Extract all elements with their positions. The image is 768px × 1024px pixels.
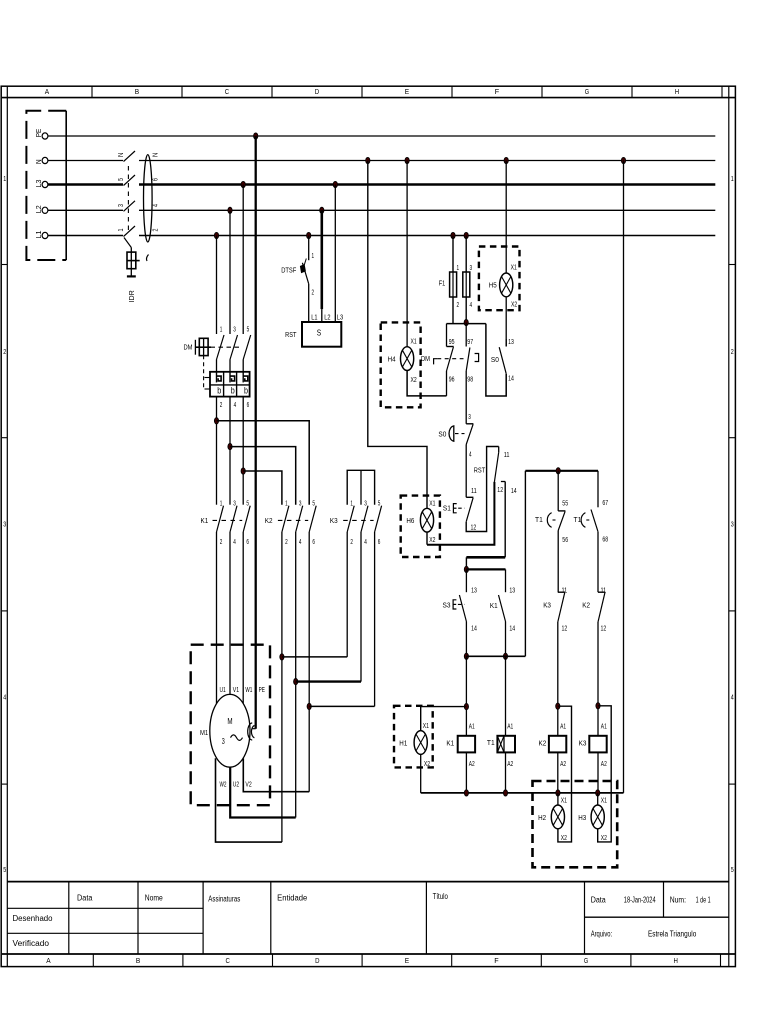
wire W2 link	[216, 758, 282, 842]
svg-text:S0: S0	[438, 429, 446, 438]
wire phase B down to K1	[229, 397, 231, 505]
wire DM 96 down	[446, 371, 448, 396]
svg-text:3: 3	[731, 522, 734, 529]
junction N to H4	[405, 157, 409, 163]
svg-text:X2: X2	[561, 835, 567, 842]
svg-text:b: b	[231, 386, 235, 396]
svg-text:1: 1	[350, 500, 353, 507]
svg-text:A2: A2	[469, 761, 475, 768]
wire 98 to S0	[465, 371, 467, 424]
wire S3 14 down	[465, 622, 467, 657]
wire PE bus	[48, 135, 715, 137]
svg-text:L1: L1	[34, 231, 43, 239]
wire H1 X1 to K1 A1	[421, 707, 467, 731]
svg-text:1: 1	[220, 327, 223, 334]
svg-text:5: 5	[378, 500, 381, 507]
wire L1 to F1b	[465, 236, 467, 273]
svg-text:4: 4	[469, 451, 472, 458]
svg-text:T1: T1	[487, 738, 495, 747]
svg-text:F: F	[494, 956, 499, 965]
wire K2-K3 link 6	[309, 705, 374, 707]
svg-text:5: 5	[118, 178, 125, 181]
svg-text:b: b	[217, 386, 221, 396]
wire N to H4 X1	[406, 161, 408, 347]
svg-text:18-Jan-2024: 18-Jan-2024	[624, 895, 656, 904]
svg-text:1: 1	[285, 500, 288, 507]
junction K3 A2 rail	[596, 790, 600, 796]
pushbutton S0	[438, 424, 473, 445]
svg-text:1: 1	[457, 265, 460, 272]
svg-text:N: N	[153, 153, 160, 157]
coil K1	[446, 736, 475, 753]
svg-text:X2: X2	[511, 301, 517, 308]
svg-text:H6: H6	[406, 516, 414, 525]
breaker DM	[184, 335, 251, 389]
svg-text:3: 3	[470, 265, 473, 272]
svg-text:12: 12	[562, 625, 568, 632]
wire feed to 97	[465, 323, 467, 347]
svg-text:K2: K2	[582, 600, 590, 609]
junction N column	[621, 157, 625, 163]
wire to K3 coil	[597, 622, 599, 736]
svg-text:A1: A1	[560, 724, 566, 731]
svg-text:4: 4	[234, 402, 237, 409]
svg-text:U1: U1	[220, 687, 226, 694]
svg-text:PE: PE	[259, 687, 266, 694]
motor M1	[200, 694, 250, 767]
contactor K3	[330, 506, 382, 532]
svg-text:A: A	[45, 87, 49, 96]
wire N to H5 X1	[505, 161, 507, 274]
contact DM 95-96	[421, 347, 464, 372]
wire T1 A2 down	[505, 752, 507, 793]
svg-text:b: b	[244, 386, 248, 396]
wire L3 to S	[334, 185, 336, 323]
wire to T1 coil	[505, 656, 507, 736]
svg-text:6: 6	[153, 178, 160, 181]
svg-text:Arquivo:: Arquivo:	[591, 930, 613, 939]
wire L1 to DTSF	[308, 236, 310, 261]
svg-text:Assinaturas: Assinaturas	[208, 894, 240, 903]
svg-text:2: 2	[731, 349, 734, 356]
svg-text:A1: A1	[469, 724, 475, 731]
svg-text:A2: A2	[560, 761, 566, 768]
svg-text:3: 3	[118, 204, 125, 207]
terminal PE	[34, 129, 48, 139]
wire K2 pole3 col	[295, 532, 297, 818]
svg-text:K2: K2	[265, 516, 273, 525]
wire H2 X1 stub	[557, 793, 559, 805]
wire H5 X2 to S0 13	[505, 297, 507, 347]
svg-text:1: 1	[731, 176, 734, 183]
svg-text:E: E	[405, 87, 409, 96]
RCD IDR	[124, 151, 153, 303]
lamp H5	[489, 273, 513, 297]
svg-text:V1: V1	[233, 687, 239, 694]
svg-text:6: 6	[246, 539, 249, 546]
svg-text:M1: M1	[200, 728, 208, 737]
wire K1 6 to motor W1	[242, 532, 244, 704]
wire T1 68 down	[597, 532, 599, 593]
svg-text:B: B	[136, 956, 140, 965]
lamp H2	[538, 805, 564, 829]
svg-text:DM: DM	[184, 343, 193, 352]
svg-text:55: 55	[562, 501, 568, 508]
lamp H6	[406, 508, 433, 532]
wire H2 X2 to K2 A1	[558, 706, 572, 842]
wire phase C down to K1	[242, 397, 244, 505]
svg-text:Entidade: Entidade	[277, 893, 308, 902]
svg-text:X2: X2	[429, 537, 435, 544]
svg-text:H: H	[675, 87, 679, 96]
junction K1 bottom	[503, 653, 507, 659]
svg-text:A: A	[46, 956, 50, 965]
svg-text:S1: S1	[443, 503, 451, 512]
junction K2 coil feed	[556, 703, 560, 709]
lamp H1 box	[394, 706, 433, 768]
wire K2-K3 link 2	[282, 656, 347, 658]
wire K3 2 down	[346, 532, 348, 657]
wire H6 X2 stub	[426, 532, 428, 545]
K3 star bar	[347, 470, 374, 504]
svg-text:K1: K1	[446, 739, 454, 748]
svg-text:2: 2	[220, 539, 223, 546]
contactor K1	[201, 506, 251, 532]
wire L3 to DM pole 5	[242, 185, 244, 335]
svg-text:H: H	[674, 956, 678, 965]
contact K1 aux 13-14	[490, 595, 506, 622]
junction control feed	[464, 320, 468, 326]
svg-text:Verificado: Verificado	[13, 939, 50, 948]
title block labels	[13, 892, 711, 948]
svg-text:12: 12	[601, 625, 607, 632]
svg-text:3: 3	[222, 737, 225, 746]
terminal L1	[34, 231, 48, 239]
lamp H1	[399, 731, 427, 755]
contact K3 interlock 11-12	[543, 592, 565, 622]
wire phase A jog to K2 pole 5	[217, 421, 310, 505]
wire to T1 55	[557, 471, 559, 511]
wire K3 A2 down	[597, 752, 599, 793]
terminal N	[34, 157, 48, 164]
terminal L2	[34, 205, 48, 213]
svg-text:5: 5	[247, 327, 250, 334]
svg-text:14: 14	[511, 488, 517, 495]
svg-text:T1: T1	[535, 515, 543, 524]
svg-text:S0: S0	[491, 355, 499, 364]
svg-text:13: 13	[508, 339, 514, 346]
svg-text:X1: X1	[601, 798, 607, 805]
overload relay DM	[210, 360, 250, 397]
svg-text:IDR: IDR	[127, 290, 136, 303]
junction L1 to S	[307, 232, 311, 238]
svg-text:2: 2	[153, 228, 160, 231]
svg-text:RST: RST	[474, 466, 486, 475]
junction K2-K3 6	[307, 703, 311, 709]
svg-text:67: 67	[602, 500, 608, 507]
wire L2 to S	[320, 210, 323, 322]
svg-text:3: 3	[468, 414, 471, 421]
svg-text:Estrela Triangulo: Estrela Triangulo	[648, 930, 697, 939]
svg-text:6: 6	[247, 402, 250, 409]
svg-text:Desenhado: Desenhado	[13, 914, 54, 923]
svg-text:5: 5	[246, 500, 249, 507]
svg-text:X2: X2	[424, 761, 430, 768]
wire T1 feed rail	[525, 470, 598, 472]
coil K3	[579, 736, 607, 753]
svg-text:T1: T1	[574, 515, 582, 524]
junction N to H5	[504, 157, 508, 163]
contactor K2	[265, 506, 316, 532]
lamp H2H3 box	[533, 781, 618, 867]
svg-text:Título: Título	[433, 892, 449, 901]
junction L2 to DM	[228, 207, 232, 213]
svg-text:X1: X1	[511, 265, 517, 272]
junction K1 A2 rail	[464, 790, 468, 796]
pushbutton S3	[443, 595, 467, 622]
svg-text:11: 11	[601, 588, 607, 595]
svg-text:A2: A2	[507, 761, 513, 768]
switch S	[285, 322, 341, 347]
coil T1	[487, 736, 515, 753]
svg-text:13: 13	[471, 588, 477, 595]
wire to K1 coil	[465, 656, 467, 736]
svg-text:B: B	[135, 87, 139, 96]
svg-text:N: N	[118, 153, 125, 157]
wire F1a out	[452, 297, 454, 324]
svg-text:F: F	[495, 87, 500, 96]
svg-text:A1: A1	[601, 724, 607, 731]
wire H1 X2 down	[420, 754, 422, 793]
wire N column	[623, 161, 625, 793]
svg-text:C: C	[226, 956, 231, 965]
wire T1 56 down	[557, 531, 559, 593]
wire to K1 13	[505, 569, 507, 592]
svg-text:1: 1	[312, 253, 315, 260]
lamp H5 box	[479, 247, 520, 311]
wire PE drop	[255, 136, 257, 729]
svg-text:2: 2	[285, 539, 288, 546]
fuse F1	[439, 272, 470, 297]
junction K1 coil feed	[464, 704, 468, 710]
svg-text:L2: L2	[324, 315, 330, 322]
svg-text:3: 3	[364, 500, 367, 507]
svg-text:M: M	[227, 717, 232, 726]
wire H4 X2 to DM 96	[407, 371, 446, 396]
svg-text:Nome: Nome	[145, 893, 163, 902]
svg-text:2: 2	[220, 402, 223, 409]
svg-text:4: 4	[470, 302, 473, 309]
svg-text:5: 5	[312, 500, 315, 507]
wire S3-K1 top rail	[466, 568, 505, 570]
junction T1 A2 rail	[503, 790, 507, 796]
svg-text:13: 13	[509, 588, 515, 595]
column letters bottom	[46, 956, 678, 965]
svg-text:1 de 1: 1 de 1	[696, 895, 711, 904]
svg-text:3: 3	[233, 500, 236, 507]
wire L2 to DM pole 3	[229, 210, 231, 334]
wire to S3 13	[465, 569, 467, 592]
junction L1 to F1b	[464, 232, 468, 238]
svg-text:S3: S3	[443, 600, 451, 609]
svg-text:L2: L2	[34, 205, 43, 213]
svg-text:PE: PE	[34, 129, 43, 138]
wire L1 to DM pole 1	[216, 236, 218, 335]
wire V2 link	[243, 758, 309, 791]
svg-text:96: 96	[449, 377, 455, 384]
svg-text:K1: K1	[490, 601, 498, 610]
svg-text:K3: K3	[579, 739, 587, 748]
pushbutton S1	[443, 497, 474, 521]
svg-text:4: 4	[364, 539, 367, 546]
svg-text:3: 3	[3, 522, 6, 529]
svg-text:E: E	[405, 956, 409, 965]
svg-text:14: 14	[471, 625, 477, 632]
svg-text:4: 4	[3, 694, 6, 701]
wire phase C jog to K2 pole 1	[243, 471, 282, 505]
wire DTSF to S L1	[308, 284, 310, 322]
svg-text:H1: H1	[399, 739, 407, 748]
junction S3 bottom	[464, 653, 468, 659]
svg-text:12: 12	[471, 525, 477, 532]
junction N to H6	[366, 157, 370, 163]
junction L1 to DM	[214, 232, 218, 238]
junction L1 to F1a	[451, 232, 455, 238]
wire L2 bus	[48, 209, 715, 211]
wire N to H6 X1	[368, 161, 427, 509]
svg-text:X1: X1	[429, 500, 435, 507]
junction phase A jog	[214, 418, 218, 424]
wire U2 link	[230, 767, 296, 818]
svg-text:3: 3	[299, 500, 302, 507]
svg-text:6: 6	[378, 539, 381, 546]
motor M1 box	[191, 645, 270, 806]
svg-text:14: 14	[509, 625, 515, 632]
wire feed to DM 95	[446, 324, 448, 347]
junction L2 to S	[320, 207, 324, 213]
svg-text:L3: L3	[34, 180, 43, 188]
svg-text:Data: Data	[77, 893, 93, 902]
wire RST 14 down	[504, 482, 506, 558]
svg-text:11: 11	[471, 488, 477, 495]
svg-text:2: 2	[3, 349, 6, 356]
wire H3 X2 to K3 A1	[598, 706, 612, 842]
title block grid	[7, 882, 729, 954]
wire phase A down to K1	[216, 397, 218, 505]
svg-text:95: 95	[449, 339, 455, 346]
svg-text:D: D	[315, 956, 320, 965]
contact T1 67-68	[574, 510, 599, 532]
junction T1 55 feed	[556, 468, 560, 474]
contact DM 97-98	[466, 348, 478, 372]
svg-text:G: G	[584, 956, 589, 965]
svg-text:14: 14	[508, 376, 514, 383]
wire K1 14 down	[505, 622, 507, 657]
wire K1 A2 down	[465, 752, 467, 793]
junction phase C jog	[241, 468, 245, 474]
svg-text:97: 97	[467, 339, 473, 346]
svg-text:1: 1	[118, 228, 125, 231]
svg-text:U2: U2	[233, 781, 239, 788]
coil K2	[539, 736, 567, 753]
svg-text:1: 1	[3, 176, 6, 183]
lamp H3	[578, 805, 604, 829]
svg-text:K1: K1	[201, 516, 209, 525]
svg-text:A2: A2	[601, 761, 607, 768]
svg-text:5: 5	[731, 867, 734, 874]
svg-text:12: 12	[497, 487, 503, 494]
svg-text:X1: X1	[411, 339, 417, 346]
supply terminal box	[26, 111, 66, 260]
wire K2 A2 down	[557, 752, 559, 793]
svg-text:6: 6	[312, 539, 315, 546]
svg-text:H4: H4	[388, 354, 396, 363]
column letters top	[45, 87, 679, 96]
svg-text:H3: H3	[578, 813, 586, 822]
svg-text:Data: Data	[591, 895, 606, 904]
svg-text:K2: K2	[539, 739, 547, 748]
svg-text:98: 98	[467, 377, 473, 384]
wire L3 bus	[48, 183, 715, 186]
contact T1 55-56	[535, 511, 565, 531]
svg-text:5: 5	[3, 867, 6, 874]
svg-text:DM: DM	[421, 354, 430, 363]
terminal L3	[34, 180, 48, 188]
svg-text:4: 4	[299, 539, 302, 546]
svg-text:2: 2	[350, 539, 353, 546]
breaker DTSF	[281, 259, 309, 284]
wire S0 4 to S1 11	[465, 445, 467, 498]
wire S0 14 to feed rail	[486, 324, 506, 396]
wire S1 12 to RST 11	[466, 447, 499, 532]
svg-text:V2: V2	[245, 781, 251, 788]
wire F1b out	[465, 297, 467, 323]
svg-text:H5: H5	[489, 281, 497, 290]
wire N bus	[48, 160, 715, 162]
wire K1 2 to motor U1	[216, 532, 218, 704]
svg-text:DTSF: DTSF	[281, 267, 296, 274]
junction K2 A2 rail	[556, 790, 560, 796]
junction L3 to S	[333, 181, 337, 187]
svg-text:K3: K3	[330, 516, 338, 525]
contact S0 aux 13-14	[491, 339, 506, 374]
junction S3 feed	[464, 566, 468, 572]
row numbers right	[731, 176, 734, 874]
svg-text:2: 2	[457, 302, 460, 309]
svg-text:K3: K3	[543, 600, 551, 609]
svg-text:X1: X1	[423, 723, 429, 730]
wire control feed rail	[447, 323, 486, 325]
wire bar RST14	[466, 556, 505, 559]
svg-text:RST: RST	[285, 330, 297, 339]
svg-text:X1: X1	[561, 798, 567, 805]
row numbers left	[3, 176, 6, 874]
wire H3 X1 stub	[597, 793, 599, 805]
svg-text:N: N	[34, 159, 43, 164]
svg-text:G: G	[585, 87, 590, 96]
svg-text:L3: L3	[337, 315, 343, 322]
svg-text:A1: A1	[507, 724, 513, 731]
svg-text:56: 56	[562, 537, 568, 544]
lamp H4	[388, 347, 414, 371]
svg-text:W2: W2	[220, 781, 227, 788]
motor PE connection	[248, 723, 256, 740]
wire K2-K3 link 4	[296, 680, 361, 682]
svg-text:Num:: Num:	[670, 895, 686, 904]
wire L1 to F1a	[452, 236, 454, 273]
svg-text:H2: H2	[538, 813, 546, 822]
lamp H6 box	[401, 496, 440, 557]
